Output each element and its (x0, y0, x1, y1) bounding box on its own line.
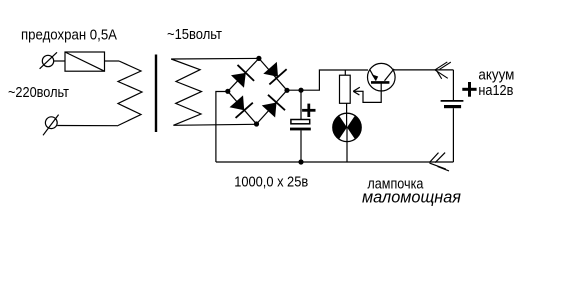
svg-text:предохран 0,5А: предохран 0,5А (21, 26, 117, 43)
wire base lead to wiper (363, 82, 381, 102)
clip crocodile top (435, 62, 451, 79)
transistor VT1 collector lead (385, 69, 395, 81)
wire battery bottom lead (452, 108, 454, 162)
diode VD1 top-left (229, 65, 254, 90)
diode VD4 bottom-right (260, 95, 285, 119)
node capacitor top junction (298, 88, 303, 93)
wire fuse to primary (105, 60, 120, 62)
node bridge top junction (256, 56, 261, 61)
svg-text:~220вольт: ~220вольт (8, 84, 69, 101)
transistor VT1 emitter with arrow (370, 70, 378, 81)
wiper arrow into resistor (353, 87, 363, 95)
capacitor C1 negative plate (290, 128, 311, 131)
clip crocodile bottom (429, 153, 449, 171)
transformer secondary winding (171, 59, 201, 125)
transistor VT1 base bar (371, 81, 389, 84)
node bridge bottom junction (254, 121, 259, 126)
wire lamp bottom lead (346, 127, 348, 162)
wire secondary bottom to bridge bottom node (173, 124, 256, 125)
wire bridge diamond top-right edge (259, 58, 287, 90)
wire bridge diamond bottom-left edge (228, 91, 257, 124)
wire bridge diamond top-left edge (228, 58, 259, 91)
node bridge left junction (225, 89, 230, 94)
resistor R1 body (340, 75, 351, 103)
wire secondary top to bridge top node (171, 57, 259, 60)
diode VD3 bottom-left (228, 94, 253, 118)
capacitor C1 positive plate (291, 120, 310, 124)
wire primary bottom to terminal (57, 125, 117, 127)
svg-text:1000,0 х 25в: 1000,0 х 25в (234, 173, 308, 190)
node bridge right junction (284, 88, 289, 93)
wire capacitor top lead (300, 90, 302, 119)
svg-text:акуум: акуум (478, 67, 514, 84)
wire bridge diamond bottom-right edge (257, 90, 288, 124)
wire bridge left node to negative rail (216, 92, 228, 163)
wire capacitor bottom lead (300, 130, 302, 162)
svg-text:~15вольт: ~15вольт (167, 26, 222, 43)
battery GB1 positive plate (441, 100, 464, 102)
terminal top-left input (40, 52, 57, 69)
wire terminal to fuse (54, 60, 65, 62)
svg-text:на12в: на12в (478, 82, 513, 99)
wire positive rail collector to battery (394, 69, 453, 71)
wire resistor to lamp (346, 103, 348, 127)
wire battery top lead (452, 70, 454, 100)
svg-text:маломощная: маломощная (362, 188, 461, 207)
battery GB1 negative plate (444, 105, 461, 108)
transistor VT1 body circle (368, 63, 396, 91)
battery plus sign (462, 82, 476, 97)
diode VD2 top-right (261, 60, 286, 84)
fuse FU1 0,5A (65, 52, 105, 71)
terminal bottom-left input (43, 115, 59, 136)
transformer core (155, 55, 157, 133)
wire bridge right node to positive corner (287, 70, 368, 90)
capacitor C1 plus sign (302, 104, 315, 117)
transformer primary winding (117, 61, 142, 126)
lamp HL1 low-power bulb (333, 113, 361, 141)
node capacitor bottom junction (298, 159, 303, 164)
wire negative bottom rail (216, 161, 454, 163)
resistor R1 top stub (344, 70, 346, 75)
